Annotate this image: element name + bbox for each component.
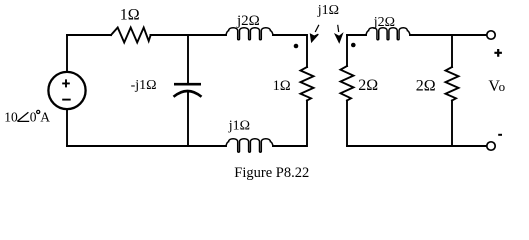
svg-text:A: A — [40, 110, 50, 125]
current source minus sign — [62, 99, 70, 101]
resistor 1ohm zigzag — [111, 28, 151, 43]
wire load branch top — [451, 35, 453, 67]
wire top-left from source to resistor R — [67, 34, 111, 36]
svg-text:2Ω: 2Ω — [416, 77, 436, 94]
label plus (output) — [494, 49, 502, 57]
capacitor branch bottom wire — [187, 92, 189, 146]
wire L3 to output terminal top — [410, 34, 487, 36]
transformer dot right winding — [351, 43, 356, 48]
svg-text:2Ω: 2Ω — [358, 77, 378, 94]
wire bottom-right rail to output terminal — [347, 145, 487, 147]
label 10 angle 0 deg A (source) — [4, 110, 50, 125]
svg-text:Figure P8.22: Figure P8.22 — [234, 165, 309, 181]
label minus (output) — [498, 134, 502, 136]
wire right winding bottom to bottom rail — [346, 101, 348, 147]
output terminal top open circle — [487, 31, 495, 39]
wire L1 to left winding top corner — [273, 35, 307, 67]
inductor j1ohm bottom coil — [226, 139, 273, 153]
svg-text:o: o — [499, 79, 506, 94]
svg-text:1Ω: 1Ω — [120, 6, 140, 23]
wire source branch top — [66, 35, 68, 72]
transformer right winding 2ohm vertical zigzag — [341, 66, 354, 101]
svg-text:j1Ω: j1Ω — [228, 118, 250, 133]
capacitor -j1ohm top plate — [174, 83, 201, 86]
wire bottom-left rail — [67, 145, 226, 147]
svg-text:j2Ω: j2Ω — [236, 13, 260, 29]
wire right winding top to inductor L3 — [347, 34, 366, 36]
svg-text:j2Ω: j2Ω — [373, 15, 395, 30]
wire source branch bottom — [66, 109, 68, 146]
svg-text:0: 0 — [30, 110, 37, 125]
wire right winding top corner — [346, 35, 348, 66]
wire left winding bottom to bottom rail — [273, 101, 307, 147]
resistor 2ohm load vertical zigzag — [446, 67, 459, 101]
inductor j2ohm right coil — [366, 28, 410, 40]
output terminal bottom open circle — [487, 142, 495, 150]
wire load branch bottom — [451, 101, 453, 147]
svg-text:1Ω: 1Ω — [273, 78, 291, 94]
wire resistor to inductor L1 — [151, 34, 227, 36]
current source I1 circle — [48, 72, 85, 109]
current source plus sign — [62, 79, 70, 87]
coupling arrow left — [311, 25, 319, 42]
svg-text:j1Ω: j1Ω — [317, 3, 339, 18]
svg-text:10: 10 — [4, 110, 18, 125]
transformer left winding 1ohm vertical zigzag — [301, 67, 314, 101]
capacitor -j1ohm bottom curved plate — [174, 91, 202, 97]
capacitor branch top wire — [187, 35, 189, 83]
coupling arrow right — [335, 25, 342, 43]
transformer dot left winding — [294, 44, 299, 49]
inductor j2ohm top-middle coil — [226, 28, 273, 40]
svg-text:-j1Ω: -j1Ω — [131, 78, 157, 93]
